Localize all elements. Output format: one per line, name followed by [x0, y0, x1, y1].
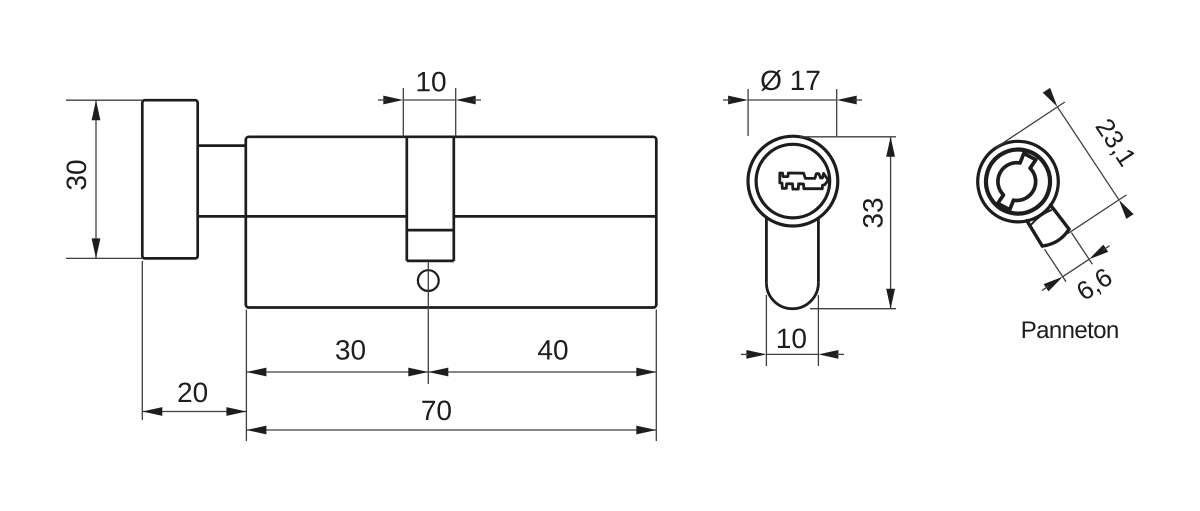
dim 40 arrow (mid left) — [428, 368, 448, 377]
panneton outer circle — [962, 126, 1074, 238]
dim 70 arrow right — [636, 426, 656, 435]
dim 10f arrow right (outside) — [818, 350, 838, 359]
dim 20 ext line (knob left) — [141, 261, 143, 420]
body mid parting line right — [454, 215, 657, 218]
dim 33 line — [890, 137, 892, 309]
fixing screw hole — [418, 270, 439, 291]
dim 23.1 arrow bottom (outside) — [1115, 197, 1133, 219]
dim 10f ext right — [817, 295, 819, 366]
dim 30 ext line bottom — [66, 257, 142, 259]
dim 30 arrow up — [92, 100, 101, 120]
dim 10c label — [418, 72, 446, 92]
dim 23.1 line — [1057, 107, 1118, 200]
knob neck top line — [198, 144, 246, 147]
body mid parting line left — [246, 215, 407, 218]
dim 33 ext top — [800, 136, 896, 138]
dim 10c ext left — [402, 88, 404, 137]
neck collar line — [1029, 209, 1052, 225]
dim 20 line — [142, 411, 246, 413]
dim 30 line — [95, 100, 97, 258]
cylinder body — [246, 137, 657, 308]
label Panneton — [1023, 321, 1118, 338]
dim D17 arrow right (outside) — [837, 96, 857, 105]
dim D17 label — [761, 70, 819, 91]
keyway profile — [780, 173, 829, 189]
dim 10c line — [403, 99, 455, 101]
dim D17 arrow left (outside) — [728, 96, 748, 105]
dim 70 line — [246, 429, 656, 431]
knob (thumbturn) — [142, 100, 197, 258]
dim 30 ext line top — [66, 99, 142, 101]
ext line body right — [655, 310, 657, 442]
front view outer circle — [748, 136, 838, 226]
dim 10c arrow left (outside) — [383, 96, 403, 105]
cam inner edge — [407, 229, 454, 232]
dim 30 arrow down — [92, 238, 101, 258]
dim 23.1 label — [1093, 117, 1137, 169]
dim 30-40 line — [246, 371, 656, 373]
dim 10f ext left — [765, 295, 767, 366]
neck right side — [1050, 204, 1069, 231]
dim 30 arrow (left outward) — [246, 368, 266, 377]
dim 23.1 ext line bottom (stem end) — [1068, 195, 1127, 234]
dim 23.1 arrow top (outside) — [1043, 88, 1061, 110]
dim 40 label — [538, 340, 567, 360]
dim 10f arrow left (outside) — [746, 350, 766, 359]
dim D17 line — [748, 99, 837, 101]
cam right edge — [452, 137, 455, 261]
cam left edge — [405, 137, 408, 261]
dim 30 label — [66, 161, 86, 190]
neck end face — [1042, 229, 1071, 250]
stem left side — [765, 217, 768, 282]
dim 23.1 ext line top (tangent) — [996, 102, 1065, 148]
dim 20 arrow left — [142, 407, 162, 416]
neck left side — [1026, 221, 1043, 246]
dim 6.6 label — [1075, 267, 1115, 303]
dim 40 arrow (right outward) — [636, 368, 656, 377]
stem rounded bottom — [766, 283, 818, 309]
cam bottom edge — [407, 260, 454, 263]
dim 33 ext bottom — [810, 308, 896, 310]
dim 33 label — [863, 199, 883, 228]
panneton inner ring — [974, 137, 1063, 226]
dim 30 arrow (mid right) — [408, 368, 428, 377]
dim 6.6 ext line right — [1071, 233, 1092, 265]
cam profile — [983, 150, 1051, 213]
stem right side — [817, 217, 820, 282]
dim 33 arrow down — [886, 289, 895, 309]
front view plug circle — [756, 144, 830, 218]
dim 6.6 arrow left (outside) — [1044, 273, 1066, 291]
dim D17 ext left — [747, 89, 749, 136]
dim 10c ext right — [455, 88, 457, 137]
dim 70 arrow left — [246, 426, 266, 435]
dim 6.6 line — [1063, 259, 1089, 276]
dim 70 label — [422, 400, 451, 420]
dim 10f line — [766, 353, 818, 355]
dim 20 label — [178, 382, 207, 402]
dim 20 arrow right — [226, 407, 246, 416]
dim 6.6 arrow right (outside) — [1087, 245, 1109, 263]
dim D17 ext right — [836, 89, 838, 136]
dim 10f label — [778, 328, 806, 348]
dim 10c arrow right (outside) — [456, 96, 476, 105]
dim 33 arrow up — [886, 137, 895, 157]
dim 6.6 ext line left — [1045, 249, 1067, 282]
centerline through screw hole — [427, 263, 429, 385]
ext line body left — [245, 310, 247, 442]
knob neck bottom line — [198, 215, 246, 218]
dim 30 label — [336, 340, 365, 360]
